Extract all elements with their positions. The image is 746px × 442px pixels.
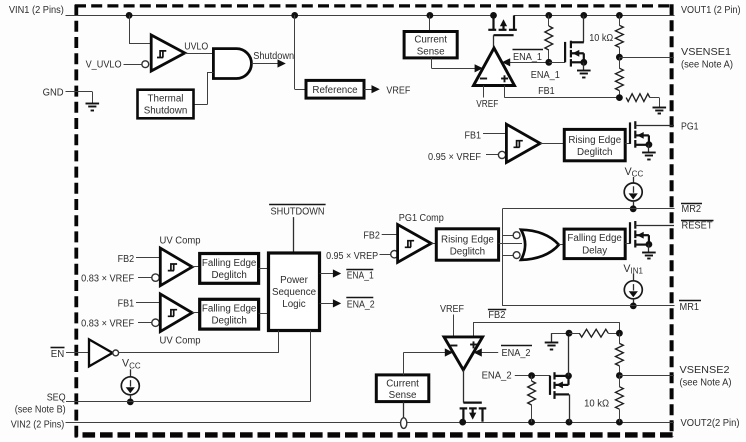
svg-text:Power: Power xyxy=(280,275,309,286)
wire FB2 to U5 xyxy=(382,234,398,236)
wire VIN1 to Reference xyxy=(295,15,307,89)
block Power Sequence Logic xyxy=(269,253,320,331)
comparator U2 UVLO xyxy=(151,35,185,71)
svg-text:Shutdown: Shutdown xyxy=(253,51,294,62)
svg-text:Deglitch: Deglitch xyxy=(211,316,246,327)
wire GND xyxy=(66,92,93,104)
svg-text:Sequence: Sequence xyxy=(272,287,317,298)
label VCC 1 xyxy=(625,166,644,179)
svg-text:VIN2 (2 Pins): VIN2 (2 Pins) xyxy=(11,420,65,431)
wire 0.83VREF 2 xyxy=(138,319,159,326)
svg-text:0.83 × VREF: 0.83 × VREF xyxy=(81,273,134,284)
wire current sense 2 tap xyxy=(403,402,405,418)
AND gate U3 xyxy=(213,49,251,79)
dashed boundary top xyxy=(75,4,673,7)
label V_UVLO xyxy=(86,60,122,71)
svg-text:VREF: VREF xyxy=(476,99,498,110)
wire V_UVLO input xyxy=(124,61,149,68)
label VREF under U1 xyxy=(476,99,498,110)
resistor R2 xyxy=(616,15,624,60)
wire deglitchB to PSL xyxy=(259,313,269,315)
svg-text:VOUT2(2 Pin): VOUT2(2 Pin) xyxy=(681,418,740,429)
pass transistor Q1 xyxy=(488,15,517,48)
svg-text:10 kΩ: 10 kΩ xyxy=(589,33,613,44)
wire U4 to deglitch xyxy=(540,143,564,145)
current source I1 xyxy=(624,177,642,212)
svg-text:Deglitch: Deglitch xyxy=(577,147,612,158)
pass transistor Q2 xyxy=(460,403,487,423)
label FB2 uv input xyxy=(118,254,135,265)
pin label VSENSE2 xyxy=(680,365,732,389)
pin label VSENSE1 xyxy=(681,47,733,70)
label FB2 comparator input xyxy=(363,231,380,242)
block Rising Edge Deglitch 1 xyxy=(564,129,625,160)
svg-text:Current: Current xyxy=(386,378,419,389)
resistor R8 xyxy=(616,376,624,423)
wire 0.95VREP input xyxy=(380,251,399,258)
svg-text:Deglitch: Deglitch xyxy=(211,270,246,281)
wire FB2 uv xyxy=(136,257,160,259)
svg-text:Logic: Logic xyxy=(282,299,306,310)
wire U10 to Q2 gate xyxy=(463,370,465,403)
wire UVLO to AND xyxy=(185,53,214,55)
wire VIN1 to UVLO comparator xyxy=(129,15,151,43)
svg-text:Sense: Sense xyxy=(417,47,445,58)
wire FB2 top rail xyxy=(552,330,573,337)
wire VREF to U10 xyxy=(453,315,455,337)
wire VIN1 rail xyxy=(66,12,497,19)
svg-text:ENA_2: ENA_2 xyxy=(347,300,375,311)
sense element ellipse xyxy=(401,418,407,429)
pin label VIN2 xyxy=(11,420,65,431)
transistor Q4 PG1 xyxy=(630,121,674,152)
ground symbol FB2 res xyxy=(545,333,559,349)
block Current Sense 1 xyxy=(404,32,457,58)
wire MR1 xyxy=(502,305,674,307)
label SHUTDOWN overline xyxy=(269,205,326,218)
label 0.95 x VREP xyxy=(326,251,378,262)
svg-text:VSENSE2: VSENSE2 xyxy=(680,365,730,376)
resistor R4 to ground xyxy=(626,94,659,107)
label Shutdown xyxy=(253,51,294,62)
svg-text:EN: EN xyxy=(51,349,65,360)
wire MR2 xyxy=(502,208,674,210)
pin label VOUT2 xyxy=(681,418,740,429)
svg-text:Thermal: Thermal xyxy=(148,94,184,105)
svg-text:Rising Edge: Rising Edge xyxy=(568,135,621,146)
wire OR to delay xyxy=(559,244,564,246)
ground symbol GND pin xyxy=(86,104,100,111)
label UV Comp 1 xyxy=(160,236,202,247)
ground symbol Q3 source xyxy=(577,71,591,78)
wire U7 to deglitchA xyxy=(192,266,200,268)
svg-text:Delay: Delay xyxy=(582,245,607,256)
pin label EN overline xyxy=(51,348,65,361)
svg-text:SHUTDOWN: SHUTDOWN xyxy=(271,207,325,218)
label ENA_1 out overline xyxy=(346,270,373,282)
svg-text:VOUT1 (2 Pin): VOUT1 (2 Pin) xyxy=(681,5,741,16)
label VREF reference output xyxy=(386,85,410,96)
wire ENA_1 to Q3 gate xyxy=(549,62,565,64)
comparator U5 xyxy=(398,225,432,263)
wire U8 to deglitchB xyxy=(192,312,200,314)
transistor Q3 xyxy=(565,15,587,70)
svg-text:UV Comp: UV Comp xyxy=(160,236,202,247)
svg-text:Rising Edge: Rising Edge xyxy=(441,234,494,245)
svg-text:RESET: RESET xyxy=(682,221,713,232)
svg-text:VREF: VREF xyxy=(386,85,410,96)
svg-text:Reference: Reference xyxy=(312,85,358,96)
label 10 kOhm top xyxy=(589,33,613,44)
ground symbol R4 xyxy=(653,108,667,114)
svg-text:ENA_1: ENA_1 xyxy=(347,270,374,281)
svg-text:Falling Edge: Falling Edge xyxy=(202,258,257,269)
wire U1 minus input VREF xyxy=(483,86,485,98)
label ENA_1 xyxy=(531,70,560,81)
wire VOUT1 rail xyxy=(514,12,675,19)
svg-text:FB1: FB1 xyxy=(118,299,135,310)
wire Q6 drain from divider xyxy=(568,333,570,376)
resistor R3 xyxy=(616,57,624,101)
block Falling Edge Deglitch A xyxy=(200,254,259,284)
comparator U4 xyxy=(506,124,540,162)
svg-text:0.95 × VREP: 0.95 × VREP xyxy=(326,251,378,262)
svg-text:(see Note B): (see Note B) xyxy=(15,404,66,415)
svg-text:V_UVLO: V_UVLO xyxy=(86,60,122,71)
pin label MR2 overline xyxy=(681,204,702,216)
wire ENA_2 net xyxy=(515,372,550,379)
resistor R1 xyxy=(545,15,553,65)
wire MR2 to OR input xyxy=(502,209,514,306)
pin label SEQ xyxy=(47,392,66,403)
pin label VIN1 xyxy=(9,5,64,16)
svg-text:MR1: MR1 xyxy=(680,302,700,313)
svg-text:GND: GND xyxy=(43,88,64,99)
wire VIN2 VOUT2 rail xyxy=(66,419,675,426)
block Falling Edge Delay xyxy=(564,229,625,259)
wire delay to Q5 gate xyxy=(625,243,630,245)
wire SHUTDOWN to PSL xyxy=(293,217,295,253)
block Falling Edge Deglitch B xyxy=(200,299,259,329)
svg-text:Sense: Sense xyxy=(389,390,417,401)
wire current sense 2 to amp xyxy=(403,348,453,375)
label 0.83 x VREF 1 xyxy=(81,273,134,284)
transistor Q6 xyxy=(550,372,572,422)
wire FB1 to U4 xyxy=(483,133,506,135)
dashed boundary left xyxy=(74,4,78,437)
block Current Sense 2 xyxy=(376,375,429,402)
label 0.83 x VREF 2 xyxy=(81,319,134,330)
label ENA_2 out overline xyxy=(346,298,374,311)
comparator U7 xyxy=(160,248,192,286)
svg-text:FB1: FB1 xyxy=(465,130,482,141)
wire SEQ xyxy=(66,331,311,402)
svg-text:Current: Current xyxy=(414,35,447,46)
svg-text:UV Comp: UV Comp xyxy=(160,335,202,346)
svg-text:PG1 Comp: PG1 Comp xyxy=(399,213,445,224)
resistor R5 xyxy=(528,376,536,423)
wire U5 to deglitch 2 xyxy=(431,243,436,245)
label PG1 Comp xyxy=(399,213,445,224)
wire FB2 net xyxy=(473,322,619,337)
wire ENA_1bar into U1 xyxy=(502,58,549,66)
svg-text:ENA_1: ENA_1 xyxy=(531,70,560,81)
svg-text:10 kΩ: 10 kΩ xyxy=(584,399,609,410)
svg-text:FB1: FB1 xyxy=(538,86,555,97)
inverter U9 xyxy=(89,339,119,366)
ground symbol Q5 source xyxy=(642,253,656,259)
svg-text:Shutdown: Shutdown xyxy=(144,105,188,116)
label ENA_1 overline xyxy=(513,50,544,64)
svg-text:UVLO: UVLO xyxy=(184,42,208,53)
svg-text:ENA_2: ENA_2 xyxy=(502,348,531,359)
label 0.95 x VREF xyxy=(428,152,481,163)
pin label GND xyxy=(43,88,64,99)
label FB1 top xyxy=(538,86,555,97)
wire ENA_1 out xyxy=(320,269,342,277)
wire EN to PSL xyxy=(119,331,279,353)
wire 0.83VREF 1 xyxy=(138,274,159,281)
label FB1 comparator input xyxy=(465,130,482,141)
wire deglitchA to PSL xyxy=(259,268,269,270)
label 10 kOhm bottom xyxy=(584,399,609,410)
label ENA_2 overline amp xyxy=(501,346,532,360)
wire thermal to AND xyxy=(194,72,214,105)
block Thermal Shutdown xyxy=(138,90,194,119)
svg-text:MR2: MR2 xyxy=(682,204,702,215)
op-amp U1 xyxy=(474,48,515,86)
wire ENA_2 out xyxy=(320,299,342,307)
svg-text:ENA_1: ENA_1 xyxy=(513,52,542,63)
wire current sense 1 to amp xyxy=(432,58,483,73)
comparator U8 xyxy=(160,294,192,332)
svg-text:Deglitch: Deglitch xyxy=(450,246,485,257)
svg-text:VSENSE1: VSENSE1 xyxy=(681,47,731,58)
current source I3 xyxy=(121,369,139,405)
pin label MR1 overline xyxy=(679,301,701,313)
wire deglitch to Q4 gate xyxy=(625,143,630,145)
pin label PG1 xyxy=(681,121,699,132)
pin label see Note B xyxy=(15,404,66,415)
label UVLO xyxy=(184,42,208,53)
svg-text:PG1: PG1 xyxy=(681,121,699,132)
svg-text:(see Note A): (see Note A) xyxy=(681,60,733,71)
wire deglitch2 to OR xyxy=(499,243,522,245)
svg-text:VIN1 (2 Pins): VIN1 (2 Pins) xyxy=(9,5,64,16)
label FB1 uv input xyxy=(118,299,135,310)
resistor R7 xyxy=(616,333,624,379)
pin label RESET overline xyxy=(681,221,714,232)
svg-text:FB2: FB2 xyxy=(363,231,380,242)
block Reference xyxy=(306,80,364,98)
svg-text:0.83 × VREF: 0.83 × VREF xyxy=(81,319,134,330)
label VREF amp2 xyxy=(440,304,464,315)
svg-text:Falling Edge: Falling Edge xyxy=(567,233,622,244)
ground symbol Q4 source xyxy=(642,153,656,160)
pin label VOUT1 xyxy=(681,5,741,16)
wire shutdown arrow xyxy=(252,59,286,67)
wire VIN1 to current sense 1 xyxy=(429,15,431,31)
label VCC 2 xyxy=(122,358,141,371)
wire FB1 net xyxy=(505,86,620,98)
label VIN1 source xyxy=(623,263,643,276)
wire EN input xyxy=(66,352,89,354)
label UV Comp 2 xyxy=(160,335,202,346)
svg-text:0.95 × VREF: 0.95 × VREF xyxy=(428,152,481,163)
svg-text:FB2: FB2 xyxy=(488,310,505,321)
resistor R6 xyxy=(569,329,623,337)
svg-text:FB2: FB2 xyxy=(118,254,135,265)
dashed boundary right xyxy=(670,4,674,437)
wire FB1 uv xyxy=(136,302,160,304)
label ENA_2 gate xyxy=(482,371,512,382)
current source I2 xyxy=(624,274,642,310)
wire VSENSE2 xyxy=(619,375,674,377)
op-amp U10 xyxy=(444,337,483,370)
wire VSENSE1 xyxy=(619,57,674,59)
label FB2 net overline xyxy=(488,310,506,322)
wire VREF out arrow xyxy=(364,85,380,93)
svg-text:Falling Edge: Falling Edge xyxy=(202,304,257,315)
svg-text:(see Note A): (see Note A) xyxy=(680,378,732,389)
svg-text:SEQ: SEQ xyxy=(47,392,66,403)
svg-text:ENA_2: ENA_2 xyxy=(482,371,512,382)
svg-text:VREF: VREF xyxy=(440,304,464,315)
OR gate U6 xyxy=(513,230,559,260)
wire 0.95VREF input xyxy=(486,151,506,158)
transistor Q5 RESET xyxy=(630,221,674,252)
wire ENA_2bar into U10 xyxy=(474,348,499,356)
block Rising Edge Deglitch 2 xyxy=(436,229,498,260)
dashed boundary bottom xyxy=(75,432,673,437)
